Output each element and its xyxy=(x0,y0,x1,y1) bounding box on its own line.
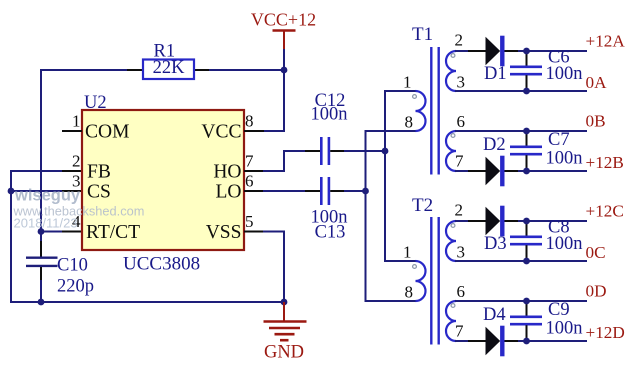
wire winding to D3 xyxy=(455,220,470,222)
node C9 bottom junction dot xyxy=(523,338,530,345)
wire winding to D2 xyxy=(455,170,470,172)
capacitor C6 bottom lead xyxy=(526,75,528,91)
diode D2 triangle xyxy=(486,157,501,185)
svg-text:GND: GND xyxy=(264,343,304,363)
wire RT/CT to IC pin 4 xyxy=(41,231,63,233)
svg-text:1: 1 xyxy=(72,112,81,131)
svg-text:VSS: VSS xyxy=(206,222,242,243)
svg-text:U2: U2 xyxy=(84,93,107,113)
wire C12 to line B xyxy=(344,150,385,152)
wire top row 0D xyxy=(455,300,587,302)
svg-text:7: 7 xyxy=(455,152,464,171)
ground symbol bar 3 xyxy=(275,333,295,336)
svg-text:UCC3808: UCC3808 xyxy=(123,254,200,275)
wire LO to C13 xyxy=(263,190,306,192)
svg-text:+12D: +12D xyxy=(586,323,625,342)
diode D3 cathode bar xyxy=(500,206,504,237)
wire D3 to output +12C xyxy=(518,220,587,222)
wire ground rail bottom xyxy=(10,301,284,303)
svg-text:COM: COM xyxy=(85,122,129,143)
transformer T2 primary phase dot xyxy=(413,265,417,269)
svg-text:C7: C7 xyxy=(548,130,570,150)
svg-text:CS: CS xyxy=(87,182,111,203)
svg-text:6: 6 xyxy=(457,282,466,301)
svg-text:5: 5 xyxy=(245,212,254,231)
svg-text:6: 6 xyxy=(457,112,466,131)
svg-text:T2: T2 xyxy=(412,195,433,216)
svg-text:100n: 100n xyxy=(546,234,583,254)
wire VCC stem to node xyxy=(283,49,285,70)
node ground junction dot xyxy=(281,299,288,306)
wire VCC node to pin 8 xyxy=(263,70,284,131)
pin 1 stub xyxy=(62,130,82,132)
svg-text:7: 7 xyxy=(245,152,254,171)
transformer T1 secondary winding top xyxy=(446,51,456,91)
svg-text:D2: D2 xyxy=(483,135,506,155)
svg-text:0A: 0A xyxy=(586,73,608,92)
svg-text:C13: C13 xyxy=(315,223,346,243)
ground symbol stem xyxy=(283,302,285,322)
node C7 bottom junction dot xyxy=(523,168,530,175)
node C13 line-A junction dot xyxy=(362,188,369,195)
diode D1 cathode stub xyxy=(505,50,520,52)
diode D3 cathode stub xyxy=(505,220,520,222)
node C8 top junction dot xyxy=(523,218,530,225)
svg-text:2: 2 xyxy=(72,152,81,171)
transformer T2 core xyxy=(431,217,438,345)
svg-text:T1: T1 xyxy=(412,24,433,45)
wire VSS to ground xyxy=(263,232,284,303)
node C9 top junction dot xyxy=(523,298,530,305)
svg-text:D1: D1 xyxy=(484,64,507,84)
resistor R1 left stub xyxy=(127,69,143,71)
capacitor C13 right stub xyxy=(330,190,345,192)
svg-text:+12A: +12A xyxy=(586,32,626,51)
svg-text:100n: 100n xyxy=(546,319,583,339)
wire C10 to ground rail xyxy=(40,280,42,302)
diode D2 anode stub xyxy=(468,170,486,172)
svg-text:6: 6 xyxy=(245,172,254,191)
pin 3 stub xyxy=(62,190,82,192)
capacitor C12 left stub xyxy=(305,150,320,152)
wire left rail top to R1 xyxy=(41,69,128,71)
ground symbol bar 1 xyxy=(264,320,307,323)
wire D1 to output +12A xyxy=(518,50,587,52)
svg-text:22K: 22K xyxy=(153,58,186,78)
diode D3 triangle xyxy=(486,207,501,235)
wire top row 0B xyxy=(455,130,587,132)
transformer T2 primary winding xyxy=(416,261,426,301)
svg-text:VCC: VCC xyxy=(201,122,241,143)
wire vertical rail R1/RTCT xyxy=(40,69,42,232)
capacitor C9 bottom lead xyxy=(526,325,528,341)
node FB/CS junction dot xyxy=(8,188,15,195)
wire return row 0C xyxy=(455,260,587,262)
node C7 top junction dot xyxy=(523,128,530,135)
capacitor C9 plates xyxy=(510,317,542,324)
pin 7 stub xyxy=(244,170,264,172)
svg-text:100n: 100n xyxy=(546,64,583,84)
svg-text:100n: 100n xyxy=(546,149,583,169)
wire winding to D1 xyxy=(455,50,470,52)
capacitor C10 top stub xyxy=(40,241,42,257)
transformer T2 secondary top phase dot xyxy=(451,224,455,228)
svg-text:C9: C9 xyxy=(548,300,570,320)
svg-text:100n: 100n xyxy=(311,105,348,125)
node RT/CT junction dot xyxy=(38,228,45,235)
svg-text:FB: FB xyxy=(87,162,111,183)
diode D1 triangle xyxy=(486,37,501,65)
svg-text:wiseguy: wiseguy xyxy=(14,187,81,205)
resistor R1 right stub xyxy=(194,69,210,71)
svg-text:8: 8 xyxy=(245,112,254,131)
diode D2 cathode stub xyxy=(505,170,520,172)
diode D4 cathode bar xyxy=(500,326,504,357)
transformer T1 secondary top phase dot xyxy=(451,54,455,58)
diode D1 anode stub xyxy=(468,50,486,52)
svg-text:C10: C10 xyxy=(57,256,88,276)
pin 4 stub xyxy=(62,231,82,233)
capacitor C9 top lead xyxy=(526,301,528,316)
wire line B C12 to transformer pins 1 xyxy=(385,91,416,261)
wire IC pin 2 FB to left rail xyxy=(11,170,63,172)
svg-text:220p: 220p xyxy=(57,277,94,297)
node C10 ground junction dot xyxy=(38,299,45,306)
capacitor C12 right stub xyxy=(330,150,345,152)
transformer T1 secondary bottom phase dot xyxy=(451,134,455,138)
diode D4 triangle xyxy=(486,327,501,355)
wire R1 to VCC node xyxy=(209,69,284,71)
diode D4 cathode stub xyxy=(505,340,520,342)
svg-text:RT/CT: RT/CT xyxy=(86,222,140,243)
svg-text:D3: D3 xyxy=(484,234,507,254)
svg-text:0B: 0B xyxy=(586,112,606,131)
node C12 line-B junction dot xyxy=(382,148,389,155)
svg-text:LO: LO xyxy=(216,182,242,203)
svg-text:+12C: +12C xyxy=(586,202,624,221)
diode D4 anode stub xyxy=(468,340,486,342)
transformer T2 secondary winding bottom xyxy=(446,301,456,341)
wire rail to C10 xyxy=(40,232,42,243)
node C6 top junction dot xyxy=(523,48,530,55)
wire left rail FB down xyxy=(10,170,12,302)
capacitor C6 plates xyxy=(510,67,542,74)
transformer T1 core xyxy=(431,47,438,175)
capacitor C7 bottom lead xyxy=(526,155,528,171)
svg-text:2018/11/23: 2018/11/23 xyxy=(14,216,78,231)
svg-text:+12B: +12B xyxy=(586,153,624,172)
capacitor C13 left stub xyxy=(305,190,320,192)
wire HO to C12 xyxy=(263,151,306,171)
transformer T2 secondary bottom phase dot xyxy=(451,304,455,308)
capacitor C10 plates xyxy=(26,258,58,266)
resistor R1 body xyxy=(143,60,194,80)
wire winding to D4 xyxy=(455,340,470,342)
diode D3 anode stub xyxy=(468,220,486,222)
node VCC junction dot xyxy=(281,67,288,74)
transformer T1 secondary winding bottom xyxy=(446,131,456,171)
pin 8 stub xyxy=(244,130,264,132)
wire line A C13 to transformer pins 8 xyxy=(366,131,416,301)
pin 5 stub xyxy=(244,231,264,233)
node C6 bottom junction dot xyxy=(523,88,530,95)
node C8 bottom junction dot xyxy=(523,258,530,265)
svg-text:1: 1 xyxy=(403,243,412,262)
wire D4 to output +12D xyxy=(518,340,587,342)
svg-text:1: 1 xyxy=(403,73,412,92)
wire CS junction to IC pin 3 xyxy=(11,190,63,192)
transformer T2 secondary winding top xyxy=(446,221,456,261)
capacitor C10 bottom stub xyxy=(40,267,42,281)
svg-text:7: 7 xyxy=(455,322,464,341)
capacitor C7 top lead xyxy=(526,131,528,146)
power symbol VCC stem xyxy=(283,31,285,51)
svg-text:8: 8 xyxy=(405,283,414,302)
svg-text:VCC+12: VCC+12 xyxy=(251,10,316,30)
wire D2 to output +12B xyxy=(518,170,587,172)
wire C13 to line A xyxy=(344,190,366,192)
ground symbol bar 2 xyxy=(269,327,300,330)
svg-text:3: 3 xyxy=(457,243,466,262)
svg-text:0C: 0C xyxy=(586,243,606,262)
pin 6 stub xyxy=(244,190,264,192)
svg-text:8: 8 xyxy=(405,113,414,132)
svg-text:0D: 0D xyxy=(586,282,607,301)
ground symbol bar 4 xyxy=(280,339,289,342)
transformer T1 primary winding xyxy=(416,91,426,131)
capacitor C7 plates xyxy=(510,147,542,154)
capacitor C13 plates xyxy=(321,177,329,205)
svg-text:3: 3 xyxy=(457,73,466,92)
transformer T1 primary phase dot xyxy=(413,95,417,99)
svg-text:HO: HO xyxy=(213,162,241,183)
capacitor C12 plates xyxy=(321,137,329,165)
svg-text:2: 2 xyxy=(455,201,464,220)
capacitor C8 top lead xyxy=(526,221,528,236)
diode D1 cathode bar xyxy=(500,36,504,67)
svg-text:D4: D4 xyxy=(483,305,506,325)
capacitor C8 plates xyxy=(510,237,542,244)
wire return row 0A xyxy=(455,90,587,92)
svg-text:2: 2 xyxy=(455,31,464,50)
diode D2 cathode bar xyxy=(500,156,504,187)
op-amp U2 UCC3808 body xyxy=(82,110,244,250)
power symbol VCC bar xyxy=(273,29,296,32)
capacitor C6 top lead xyxy=(526,51,528,66)
capacitor C8 bottom lead xyxy=(526,245,528,261)
pin 2 stub xyxy=(62,170,82,172)
